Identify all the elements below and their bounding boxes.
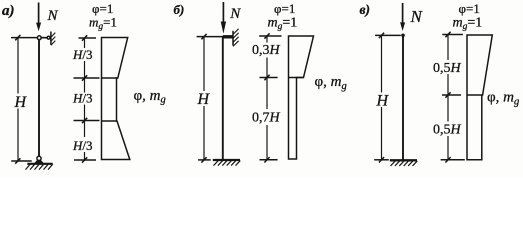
svg-text:0,3H: 0,3H <box>252 43 281 58</box>
label 0,7H (case b) <box>252 111 281 126</box>
top reference line (case a) <box>11 37 51 39</box>
diagram dim bottom mark (case v) <box>441 159 465 161</box>
top node dot (case v) <box>401 34 405 38</box>
diagram dim line (case a) <box>84 38 86 48</box>
svg-text:φ=1: φ=1 <box>274 1 295 16</box>
wall line (case b top support) <box>232 31 234 46</box>
wall hinge circle (case a) <box>47 36 50 39</box>
diagram dim mark at 0.3H (case b) <box>260 77 278 79</box>
label N (case a) <box>47 8 59 24</box>
ground hatching (case v) <box>391 161 418 166</box>
fixed base ground line (case v) <box>390 159 417 161</box>
dimension line H (case b) <box>203 37 205 91</box>
diagram dim line (case b) <box>266 36 268 43</box>
dimension tick top (case a, H) <box>15 35 20 40</box>
svg-text:в): в) <box>360 2 371 17</box>
column (case v) <box>402 37 404 160</box>
mass diagram outline (case a) <box>102 38 130 160</box>
bottom reference line (case b) <box>198 159 211 161</box>
svg-text:mg=1: mg=1 <box>268 15 298 32</box>
svg-text:б): б) <box>174 2 185 17</box>
diagram dim mark at H/3 (case a) <box>74 77 100 79</box>
svg-text:mg=1: mg=1 <box>453 15 483 32</box>
label N (case b) <box>229 6 241 22</box>
top hinge circle at column (case a) <box>37 36 41 40</box>
mass diagram step line at H/3 (case a) <box>102 77 118 79</box>
bottom hinge circle (case a) <box>37 156 41 160</box>
label 0,3H (case b) <box>252 43 281 58</box>
wall hatching (case a top support) <box>51 33 55 46</box>
label 0,5H first (case v) <box>433 61 462 76</box>
ground hatching (case a) <box>26 164 53 169</box>
column (case a) <box>38 38 40 157</box>
label H/3 third (case a) <box>72 138 93 153</box>
label v) <box>360 2 371 17</box>
diagram dim top mark (case a) <box>79 37 97 39</box>
svg-text:N: N <box>410 7 424 26</box>
bottom reference line (case a) <box>11 160 32 162</box>
svg-text:H/3: H/3 <box>72 47 93 62</box>
force arrow N (case v) <box>400 3 405 31</box>
bottom reference line (case v) <box>374 159 389 161</box>
diagram dim mark at 2H/3 (case a) <box>74 120 100 122</box>
label 0,5H second (case v) <box>433 123 462 138</box>
force arrow N (case a) <box>36 3 41 32</box>
title phi=1 (case b) <box>274 1 295 16</box>
diagram dim top mark (case b) <box>259 35 281 37</box>
top reference line (case b) <box>197 36 233 38</box>
force arrow N (case b) <box>221 2 226 34</box>
mass diagram step line at 0.5H (case v) <box>467 94 483 96</box>
svg-text:mg=1: mg=1 <box>89 14 117 32</box>
mass diagram step line at 0.3H (case b) <box>289 77 304 79</box>
dimension tick top (case b, H) <box>201 34 206 39</box>
label a) <box>2 3 15 19</box>
label N (case v) <box>410 7 424 26</box>
svg-text:H/3: H/3 <box>72 138 93 153</box>
title mg=1 (case v) <box>453 15 483 32</box>
svg-text:H: H <box>14 94 28 111</box>
mass diagram step line at 2H/3 (case a) <box>102 120 118 122</box>
dimension line H (case a) <box>17 38 19 94</box>
svg-text:0,5H: 0,5H <box>433 61 462 76</box>
title phi=1 (case v) <box>459 1 480 16</box>
diagram dim top mark (case v) <box>442 34 463 36</box>
label H (case a) <box>14 94 28 111</box>
dimension tick bottom (case v, H) <box>379 157 384 162</box>
dimension tick top (case v, H) <box>379 33 384 38</box>
dimension line H (case v) <box>381 35 383 93</box>
label b) <box>174 2 185 17</box>
dimension tick bottom (case b, H) <box>201 157 206 162</box>
wall line (case a top support) <box>50 32 52 45</box>
top reference line (case v) <box>375 34 401 36</box>
label phi, mg (case a) <box>134 88 166 106</box>
column (case b) <box>222 37 224 160</box>
svg-text:N: N <box>229 6 241 22</box>
label H (case b) <box>197 91 211 108</box>
dimension tick bottom (case a, H) <box>15 158 20 163</box>
svg-text:H/3: H/3 <box>72 91 93 106</box>
bottom pin triangle (case a) <box>35 159 44 164</box>
diagram dim mark at 0.5H (case v) <box>442 94 461 96</box>
label phi, mg (case v) <box>487 90 519 108</box>
svg-text:0,5H: 0,5H <box>433 123 462 138</box>
ground line (case a) <box>27 163 52 165</box>
title phi=1 (case a) <box>92 1 113 16</box>
ground hatching (case b) <box>214 161 241 166</box>
title mg=1 (case b) <box>268 15 298 32</box>
title mg=1 (case a) <box>89 14 117 32</box>
diagram dim bottom mark (case a) <box>74 159 96 161</box>
link bar to wall (case a) <box>41 37 47 39</box>
diagram dim line (case v) <box>447 35 449 61</box>
svg-text:H: H <box>376 92 390 109</box>
wall hatching (case b top support) <box>233 29 239 47</box>
label H (case v) <box>376 92 390 109</box>
diagram dim bottom mark (case b) <box>260 159 278 161</box>
fixed base ground line (case b) <box>213 159 240 161</box>
mass diagram outline (case b) <box>289 36 314 159</box>
sliding support bar (case b top) <box>223 35 233 38</box>
label H/3 first (case a) <box>72 47 93 62</box>
svg-text:0,7H: 0,7H <box>252 111 281 126</box>
svg-text:а): а) <box>2 3 15 19</box>
svg-text:φ=1: φ=1 <box>459 1 480 16</box>
label H/3 second (case a) <box>72 91 93 106</box>
svg-text:N: N <box>47 8 59 24</box>
label phi, mg (case b) <box>315 74 347 92</box>
svg-text:H: H <box>197 91 211 108</box>
mass diagram outline (case v) <box>467 35 492 160</box>
